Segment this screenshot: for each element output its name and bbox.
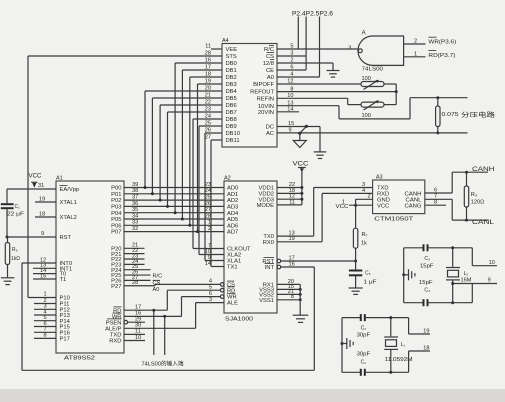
svg-text:28: 28 xyxy=(205,50,211,56)
A2 INT pin 16 wire loop to A1 INT0 xyxy=(22,261,314,370)
svg-text:22 μF: 22 μF xyxy=(7,212,24,218)
svg-text:15pF: 15pF xyxy=(419,280,433,286)
A2 VDD3 pin 12 wire xyxy=(277,194,303,201)
wire bus row P01 to AD1 xyxy=(124,188,224,194)
wire DB7 to bus column xyxy=(166,112,222,208)
svg-text:C₅: C₅ xyxy=(365,271,371,277)
svg-text:C₁: C₁ xyxy=(15,204,21,210)
capacitor C5 1uF at RST xyxy=(349,271,377,289)
A1 left pin names xyxy=(60,187,80,342)
svg-text:31: 31 xyxy=(38,183,44,189)
capacitor C3 15pF xyxy=(404,244,473,269)
svg-text:DB1: DB1 xyxy=(226,68,237,74)
svg-text:74LS00的输入端: 74LS00的输入端 xyxy=(142,360,185,368)
A3 pin names xyxy=(377,186,422,210)
svg-text:24: 24 xyxy=(205,188,211,194)
capacitor C4 15pF xyxy=(404,280,473,306)
svg-text:P00: P00 xyxy=(111,186,121,192)
A1 pin 6 P15 stub xyxy=(34,321,56,327)
svg-text:26: 26 xyxy=(205,201,211,207)
svg-text:VCC: VCC xyxy=(29,174,43,180)
svg-text:A2: A2 xyxy=(224,176,231,182)
ground at C5 xyxy=(349,288,363,294)
mcu U1 A1 AT89S52 body xyxy=(56,176,124,354)
svg-text:1: 1 xyxy=(414,51,417,57)
open triangle ground at AC xyxy=(293,133,306,147)
A3 CANL pin 7 wire xyxy=(425,194,488,222)
svg-text:18: 18 xyxy=(423,346,429,352)
svg-text:L₂: L₂ xyxy=(464,271,469,277)
A1 pin 10 RXD stub xyxy=(124,335,145,341)
svg-text:VCC: VCC xyxy=(377,203,389,209)
svg-text:0.075: 0.075 xyxy=(442,112,459,118)
wire DB6 to bus column xyxy=(159,105,222,202)
svg-text:15: 15 xyxy=(40,273,46,279)
A4 right pin numbers xyxy=(287,44,293,113)
svg-text:CANH: CANH xyxy=(472,167,495,173)
svg-text:A0: A0 xyxy=(267,75,274,81)
A1 pin 7 P16 stub xyxy=(34,327,56,333)
svg-text:19: 19 xyxy=(39,196,45,202)
svg-text:1: 1 xyxy=(44,291,47,297)
A2 XLA1 stub wire xyxy=(205,260,224,262)
svg-text:DB8: DB8 xyxy=(226,117,237,123)
A4 left pin numbers xyxy=(205,43,211,140)
A1 pin 9 RST wire and number xyxy=(6,231,57,239)
svg-text:EA/Vpp: EA/Vpp xyxy=(60,187,80,193)
A2 VDD2 pin 18 wire xyxy=(277,188,303,195)
wire A0 row xyxy=(277,76,320,78)
potentiometer RP2 100 at REFIN xyxy=(361,100,384,119)
svg-text:RX0: RX0 xyxy=(263,240,274,246)
svg-text:25: 25 xyxy=(205,195,211,201)
svg-text:10: 10 xyxy=(489,260,495,266)
svg-text:CANG: CANG xyxy=(405,203,422,209)
A1 pin 16 WR wire to SJA1000 xyxy=(124,297,182,318)
svg-text:P16: P16 xyxy=(60,330,70,336)
svg-text:P07: P07 xyxy=(111,230,121,236)
A1 P20-P23 stubs with numbers xyxy=(124,243,145,265)
svg-text:3: 3 xyxy=(209,297,212,303)
svg-text:16: 16 xyxy=(289,261,295,267)
A2 VSS1 pin 8 wire xyxy=(277,294,302,301)
wire pot1 right to REFOUT node xyxy=(384,84,396,105)
svg-text:33: 33 xyxy=(132,220,138,226)
wire P2.4 drop xyxy=(297,17,299,50)
wire DB2 to bus column xyxy=(188,77,222,227)
A2 VDD1 pin 22 wire xyxy=(277,182,303,189)
svg-text:4: 4 xyxy=(362,188,365,194)
svg-text:16M: 16M xyxy=(461,278,472,284)
svg-text:L₁: L₁ xyxy=(401,342,406,348)
wire DB5 to bus column xyxy=(151,98,222,195)
svg-text:27: 27 xyxy=(205,207,211,213)
label WR(P3.6) xyxy=(428,37,456,46)
A2 TX1 stub wire xyxy=(211,266,224,268)
A2 RX1 pin 20 wire xyxy=(277,279,300,285)
A2 pin 5 RD wire xyxy=(167,285,224,293)
wire AC pin 9 long row xyxy=(277,127,468,133)
A3 CANG pin 8 stub xyxy=(425,200,446,206)
wire REFIN to pot2 left xyxy=(277,98,361,104)
crystal XT2 16M xyxy=(446,246,472,304)
A4 pin 11 VEE stub xyxy=(211,48,222,50)
svg-text:AD6: AD6 xyxy=(227,223,238,229)
svg-text:20VIN: 20VIN xyxy=(258,110,274,116)
capacitor C1 22uF reset cap xyxy=(1,189,24,237)
capacitor C1b 30pF xyxy=(342,351,409,375)
A2 MODE pin 11 wire xyxy=(277,199,302,205)
svg-text:R/C: R/C xyxy=(153,273,163,279)
wire 11M node to net 19 XTAL1 xyxy=(409,318,430,335)
A2 RX0 pin 19 wire to A3 RXD xyxy=(277,193,373,242)
A1 pin 3 P12 stub xyxy=(34,304,56,310)
A3 label CTM1050T xyxy=(374,217,414,223)
svg-text:XTAL2: XTAL2 xyxy=(60,215,77,221)
bottom scan band xyxy=(0,389,505,402)
A1 pin 4 P13 stub xyxy=(34,309,56,315)
svg-text:CANL: CANL xyxy=(472,220,495,226)
svg-text:DB5: DB5 xyxy=(226,96,237,102)
svg-text:TXD: TXD xyxy=(110,333,122,339)
svg-text:P02: P02 xyxy=(111,198,121,204)
A1 label AT89S52 xyxy=(64,356,95,362)
A1 pin 19 XTAL1 stub xyxy=(35,196,56,202)
A1 P24-P26 stubs with net labels R/C CS A0 xyxy=(124,264,162,293)
A2 lower left pin numbers and stubs xyxy=(205,243,211,267)
A1 pin 8 P17 stub xyxy=(34,333,56,339)
svg-text:P06: P06 xyxy=(111,223,121,229)
switch DC-AC select xyxy=(298,125,308,135)
adc U4 A4 AD574 body xyxy=(222,38,277,147)
wire bus row P00 to AD0 xyxy=(124,182,224,188)
svg-text:38: 38 xyxy=(132,188,138,194)
svg-text:2: 2 xyxy=(414,39,417,45)
svg-text:11: 11 xyxy=(205,43,211,49)
A1 pin 30 ALE/P wire to SJA1000 ALE xyxy=(124,303,196,329)
svg-text:分压电路: 分压电路 xyxy=(461,111,495,119)
wire bus row P07 to AD7 xyxy=(124,226,224,232)
A1 pin 29 PSEN stub xyxy=(124,317,145,325)
svg-text:32: 32 xyxy=(132,226,138,232)
A2 right pin names xyxy=(257,186,275,304)
A2 CLKOUT stub wire xyxy=(193,248,224,250)
wire 12/8 to ground xyxy=(277,63,333,71)
svg-text:30pF: 30pF xyxy=(357,351,371,357)
gate output pin 1 wire to RD P3.7 xyxy=(404,51,426,57)
svg-text:A4: A4 xyxy=(222,38,229,44)
ground at DC xyxy=(314,152,327,159)
wire REFOUT pin 8 xyxy=(277,90,398,93)
wire P2.6 drop to A0 xyxy=(319,17,321,78)
wire CE row xyxy=(277,69,306,71)
wire DB0 to bus column xyxy=(174,63,222,214)
svg-text:12/8: 12/8 xyxy=(263,61,274,67)
ground at R5 xyxy=(1,278,14,285)
svg-text:29: 29 xyxy=(135,317,141,323)
svg-text:VCC: VCC xyxy=(336,204,349,210)
A1 pin 12 INT0 number xyxy=(40,257,46,263)
svg-text:DB0: DB0 xyxy=(226,61,237,67)
A2 pin 6 WR wire xyxy=(182,291,225,299)
gate input pin 3 label xyxy=(348,45,351,51)
A1 pin 13 INT1 stub xyxy=(33,263,56,269)
gate output pin 2 wire to WR P3.6 xyxy=(404,39,426,45)
svg-text:PSEN: PSEN xyxy=(106,320,122,326)
svg-text:34: 34 xyxy=(132,213,138,219)
svg-text:30pF: 30pF xyxy=(357,333,371,339)
gate A 74LS00 xyxy=(358,31,404,73)
potentiometer RP1 100 at BIPOFF xyxy=(277,76,384,90)
svg-text:A3: A3 xyxy=(376,175,383,181)
wire 10VIN outer loop to divider input xyxy=(277,96,468,119)
wire DB11 column down xyxy=(211,140,222,267)
svg-text:AD7: AD7 xyxy=(227,230,238,236)
svg-text:RD(P3.7): RD(P3.7) xyxy=(428,53,455,59)
wire pot2 right side xyxy=(384,104,396,106)
svg-text:1kΩ: 1kΩ xyxy=(11,256,20,262)
svg-text:P01: P01 xyxy=(111,192,121,198)
svg-text:1 μF: 1 μF xyxy=(364,280,377,286)
svg-text:3: 3 xyxy=(348,45,351,51)
svg-text:8: 8 xyxy=(291,294,294,300)
A2 pin 3 ALE wire xyxy=(196,297,224,303)
left rail and ground of 16M circuit xyxy=(402,248,415,303)
A1 pin 11 TXD stub xyxy=(124,329,145,335)
svg-text:AC: AC xyxy=(266,131,274,137)
svg-text:CTM1050T: CTM1050T xyxy=(374,217,414,223)
svg-text:RST: RST xyxy=(60,235,72,241)
svg-text:11: 11 xyxy=(135,329,141,335)
svg-text:P2.4P2.5P2.6: P2.4P2.5P2.6 xyxy=(292,12,334,18)
wire bus row P05 to AD5 xyxy=(124,213,224,219)
svg-text:RXD: RXD xyxy=(109,339,121,345)
svg-text:MODE: MODE xyxy=(257,203,275,209)
VCC symbol at A2 VDD xyxy=(293,162,310,205)
svg-text:AD4: AD4 xyxy=(227,211,239,217)
A1 pin 15 T1 stub xyxy=(33,273,56,279)
svg-text:11: 11 xyxy=(289,199,295,205)
svg-text:AD5: AD5 xyxy=(227,217,238,223)
svg-text:R₃: R₃ xyxy=(471,192,477,198)
svg-text:AT89S52: AT89S52 xyxy=(64,356,95,362)
A1 pin 31 EA/Vpp wire and number xyxy=(7,183,68,189)
A3 left pin numbers xyxy=(342,182,371,206)
svg-text:A: A xyxy=(362,31,366,37)
wire bus row P04 to AD4 xyxy=(124,207,224,213)
svg-text:C₁: C₁ xyxy=(361,359,367,365)
svg-text:P03: P03 xyxy=(111,205,121,211)
svg-text:A1: A1 xyxy=(56,176,63,182)
svg-text:DB3: DB3 xyxy=(226,82,237,88)
A2 XLA2 stub wire xyxy=(199,254,224,256)
wire bus row P06 to AD6 xyxy=(124,220,224,226)
svg-text:15pF: 15pF xyxy=(420,264,434,270)
can transceiver U3 A3 CTM1050T body xyxy=(373,175,425,214)
wire DB8 column down xyxy=(193,119,222,249)
label 74LS00 input terminals xyxy=(142,360,185,368)
resistor Rd 0.075 divider xyxy=(436,98,459,135)
svg-text:INT: INT xyxy=(265,265,275,271)
svg-text:A0: A0 xyxy=(153,287,160,293)
wire CS row to P2.5 xyxy=(277,55,306,57)
svg-text:19: 19 xyxy=(289,236,295,242)
A3 GND pin 2 wire down to R7 xyxy=(354,199,373,228)
wire VSS down xyxy=(299,284,301,315)
svg-text:WR(P3.6): WR(P3.6) xyxy=(428,40,456,46)
svg-text:T1: T1 xyxy=(60,277,67,283)
crystal XT1 11.0592M xyxy=(384,316,413,374)
can controller U2 A2 SJA1000 body xyxy=(224,176,277,314)
svg-text:5: 5 xyxy=(209,285,212,291)
svg-text:37: 37 xyxy=(132,195,138,201)
svg-text:DC: DC xyxy=(266,125,274,131)
svg-text:AD3: AD3 xyxy=(227,205,238,211)
wire STS A4 pin28 to A1 P10 left loop xyxy=(28,56,222,298)
resistor R7 at SJA1000 RST xyxy=(353,228,367,269)
left rail and ground of 11M circuit xyxy=(341,318,354,373)
svg-text:14: 14 xyxy=(205,261,211,267)
svg-text:10VIN: 10VIN xyxy=(258,104,274,110)
net label CANH xyxy=(472,167,495,173)
wire 20VIN stub xyxy=(277,111,299,113)
svg-text:R₇: R₇ xyxy=(362,232,368,238)
svg-text:9: 9 xyxy=(289,127,292,133)
wire 16M node to net 9 XLA1 xyxy=(451,278,497,303)
A2 VSS3 pin 15 wire xyxy=(277,284,302,291)
resistor R3 120 Ohm terminator xyxy=(464,172,484,220)
wire DB3 to bus column xyxy=(196,84,222,233)
wire 16M node to net 10 XLA2 xyxy=(472,248,497,266)
wire bus row P03 to AD3 xyxy=(124,201,224,207)
svg-text:120Ω: 120Ω xyxy=(471,200,485,206)
A1 pin 2 P11 stub xyxy=(34,298,56,304)
svg-text:P05: P05 xyxy=(111,217,121,223)
svg-text:8: 8 xyxy=(434,200,437,206)
svg-text:VCC: VCC xyxy=(293,162,310,168)
svg-text:17: 17 xyxy=(135,305,141,311)
svg-text:R₅: R₅ xyxy=(12,247,18,253)
svg-text:XTAL1: XTAL1 xyxy=(60,200,77,206)
A2 TX0 pin 13 wire to A3 TXD xyxy=(277,188,373,237)
svg-text:C₂: C₂ xyxy=(361,326,367,332)
wire R/C to 74LS00 input pin 3 xyxy=(277,48,358,50)
svg-text:REFOUT: REFOUT xyxy=(250,90,274,96)
svg-text:CE: CE xyxy=(266,68,274,74)
svg-text:74LS00: 74LS00 xyxy=(362,67,383,73)
label fenya dianlu divider circuit xyxy=(461,111,495,119)
capacitor C2 30pF xyxy=(342,314,409,339)
svg-text:CS: CS xyxy=(153,281,161,287)
svg-text:DB7: DB7 xyxy=(226,110,237,116)
svg-text:P17: P17 xyxy=(60,337,70,343)
svg-text:15: 15 xyxy=(288,121,294,127)
svg-text:39: 39 xyxy=(132,182,138,188)
svg-text:28: 28 xyxy=(205,213,211,219)
VCC symbol at A1 EA/Vpp xyxy=(29,174,43,188)
svg-text:6: 6 xyxy=(434,187,437,193)
ground at VSS xyxy=(293,315,309,322)
svg-text:100: 100 xyxy=(362,76,371,82)
svg-text:STS: STS xyxy=(226,54,237,60)
svg-text:10: 10 xyxy=(135,335,141,341)
svg-text:19: 19 xyxy=(423,329,429,335)
A3 CANH pin 6 wire xyxy=(425,171,488,194)
svg-text:VEE: VEE xyxy=(226,47,238,53)
wire DB10 column down xyxy=(205,133,222,261)
net labels P2.4 P2.5 P2.6 xyxy=(292,12,334,18)
A2 VSS2 pin 21 wire xyxy=(277,289,302,296)
wire DB4 to bus column xyxy=(144,91,223,189)
svg-text:100: 100 xyxy=(362,113,371,119)
wire 11M node to net 18 XTAL2 xyxy=(409,346,430,373)
svg-text:C₄: C₄ xyxy=(424,288,430,294)
A1 pin 18 XTAL2 stub xyxy=(35,211,56,217)
A1 pin 14 T0 stub xyxy=(33,268,56,274)
svg-text:DB11: DB11 xyxy=(226,138,240,144)
svg-text:P04: P04 xyxy=(111,211,122,217)
svg-text:TX1: TX1 xyxy=(227,265,238,271)
svg-text:C₃: C₃ xyxy=(424,256,430,262)
A2 RST pin 17 wire xyxy=(277,255,357,262)
svg-text:9: 9 xyxy=(41,231,44,237)
A1 pin 1 P10 wire from STS loop xyxy=(28,291,56,297)
wire DB1 to bus column xyxy=(181,70,222,221)
resistor R5 1kOhm reset pulldown xyxy=(5,237,20,277)
svg-text:DB9: DB9 xyxy=(226,124,237,130)
svg-text:AD0: AD0 xyxy=(227,186,238,192)
A2 label SJA1000 xyxy=(225,317,253,323)
net label CANL xyxy=(472,220,495,226)
wire P2.5 drop to CE xyxy=(305,17,307,71)
svg-text:28: 28 xyxy=(132,280,138,286)
svg-text:30: 30 xyxy=(135,323,141,329)
A3 VCC pin 1 wire with net label xyxy=(336,204,373,210)
A2 left pin names xyxy=(227,186,251,307)
svg-text:DB2: DB2 xyxy=(226,75,237,81)
svg-text:DB4: DB4 xyxy=(226,89,238,95)
svg-text:35: 35 xyxy=(132,207,138,213)
svg-text:7: 7 xyxy=(44,327,47,333)
ground at 12/8 xyxy=(327,71,340,78)
A4 left pin names xyxy=(226,47,241,144)
svg-text:DB6: DB6 xyxy=(226,103,237,109)
svg-text:SJA1000: SJA1000 xyxy=(225,317,253,323)
wire DC pin 15 to ground xyxy=(277,121,320,152)
svg-text:BIPOFF: BIPOFF xyxy=(253,82,274,88)
svg-text:VSS1: VSS1 xyxy=(259,298,274,304)
A1 right pin names xyxy=(105,186,122,345)
svg-text:DB10: DB10 xyxy=(226,131,241,137)
label RD(P3.7) xyxy=(428,51,455,60)
svg-text:ALE/P: ALE/P xyxy=(105,326,122,332)
wire taps to 74LS00 inputs xyxy=(154,310,165,355)
A4 right pin names xyxy=(250,46,274,138)
A2 pin 4 CS wire from P27 xyxy=(124,279,224,287)
wire DB9 column down xyxy=(199,126,222,255)
svg-text:18: 18 xyxy=(39,211,45,217)
svg-text:1k: 1k xyxy=(361,241,367,247)
svg-text:36: 36 xyxy=(132,201,138,207)
svg-text:AD1: AD1 xyxy=(227,192,238,198)
svg-text:REFIN: REFIN xyxy=(257,96,274,102)
svg-text:27: 27 xyxy=(205,134,211,140)
A1 pin 5 P14 stub xyxy=(34,315,56,321)
svg-text:ALE: ALE xyxy=(227,301,238,307)
A1 P27 number xyxy=(132,280,138,286)
svg-text:23: 23 xyxy=(205,182,211,188)
A1 pin 17 RD wire to SJA1000 xyxy=(124,290,167,312)
